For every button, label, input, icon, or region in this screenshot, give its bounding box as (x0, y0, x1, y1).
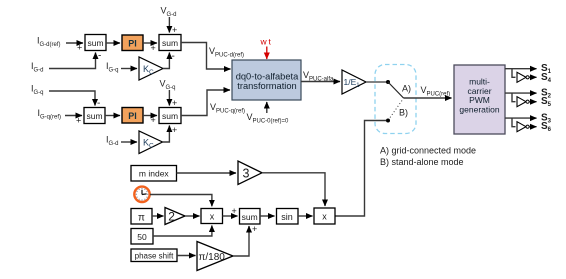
wire sum5 to sin (260, 215, 275, 217)
svg-text:+: + (252, 224, 257, 234)
svg-text:PI: PI (128, 39, 137, 49)
svg-text:+: + (151, 43, 156, 53)
wire branch to inverter G1 (512, 69, 516, 78)
svg-text:A) grid-connected mode: A) grid-connected mode (380, 146, 476, 156)
svg-text:IG-d(ref): IG-d(ref) (37, 36, 61, 49)
node I_G-q label (Kc1 input) (106, 61, 119, 74)
wire inverter G2 to S5 (529, 96, 551, 108)
gain 1/E1 triangle (342, 70, 366, 94)
svg-text:-: - (98, 51, 101, 62)
svg-text:IG-q: IG-q (106, 61, 119, 74)
switch contact B node (386, 108, 408, 123)
wire Kc2 to sum4 plus bottom (163, 125, 178, 142)
svg-text:VG-d: VG-d (161, 6, 177, 19)
svg-text:VPUC-alfa: VPUC-alfa (303, 70, 334, 83)
block multi-carrier PWM generation (454, 65, 505, 134)
node I_G-d label (Kc2 input) (106, 135, 119, 148)
wire branch to inverter G3 (512, 118, 516, 127)
block m index (131, 166, 177, 182)
svg-text:sin: sin (281, 212, 293, 222)
block sum1 (85, 35, 106, 51)
legend mode B text (380, 157, 464, 167)
wire PWM to S1 (505, 63, 552, 75)
block dq0-to-alfabeta transformation (232, 60, 301, 100)
wire gain 2 to product x1 (185, 215, 200, 217)
node I_G-q(ref) label (38, 108, 62, 121)
wire wt into transformation top (red) (266, 47, 268, 60)
wire I_G-q to sum3 minus top (49, 91, 100, 109)
wire sum2 to transformation block, node V_PUC-d(ref) (181, 43, 244, 70)
wire gain 3 to product x2 top (262, 173, 325, 206)
wire V_G-q to sum4 top (169, 90, 177, 108)
svg-text:π: π (138, 212, 145, 223)
svg-text:PI: PI (128, 111, 137, 121)
svg-text:-: - (172, 51, 175, 62)
wire sum4 to transformation block, node V_PUC-q(ref) (181, 90, 245, 116)
block pi constant (131, 209, 152, 225)
svg-text:dq0-to-alfabeta: dq0-to-alfabeta (236, 72, 299, 82)
wire branch to inverter G2 (512, 93, 516, 102)
node V_G-q label (160, 79, 176, 92)
svg-text:+: + (172, 125, 177, 135)
block sum5 (240, 209, 261, 225)
block product x2 (314, 208, 335, 224)
node I_G-d input label (31, 61, 44, 74)
wire I_G-d to Kc2 (121, 141, 137, 143)
node I_G-q input label row2 (31, 84, 44, 97)
wire clock to product x1 top (150, 195, 212, 207)
wire phase shift to gain pi/180 (177, 255, 196, 257)
node V_G-d label (161, 6, 177, 19)
wire sum3 to PI2 (105, 115, 120, 117)
wire Kc1 to sum2 minus bottom (163, 51, 175, 69)
svg-text:sum: sum (86, 111, 102, 121)
svg-text:generation: generation (459, 104, 499, 114)
block sum4 (159, 108, 181, 124)
svg-text:VG-q: VG-q (160, 79, 176, 92)
switch throw wire pivot to B (389, 101, 402, 120)
wire I_G-q to Kc1 (121, 68, 137, 70)
wire inverter G1 to S4 (529, 72, 551, 84)
svg-text:+: + (77, 43, 82, 53)
legend mode A text (380, 146, 476, 156)
svg-text:IG-q: IG-q (31, 84, 44, 97)
gain 2 triangle (165, 208, 185, 225)
switch contact A node (386, 80, 411, 94)
wire I_G-q(ref) to sum3 (65, 116, 82, 126)
wire transformation to 1/E1 gain, node V_PUC-alfa (301, 70, 340, 83)
node I_G-d(ref) input label (37, 36, 61, 49)
svg-text:+: + (172, 25, 177, 35)
svg-text:B) stand-alone mode: B) stand-alone mode (380, 157, 464, 167)
wire pi to gain 2 (152, 215, 164, 217)
svg-text:phase shift: phase shift (135, 251, 174, 260)
wire PI1 to sum2 (143, 43, 157, 53)
svg-text:VPUC-d(ref): VPUC-d(ref) (209, 46, 244, 59)
wire V_G-d to sum2 top (169, 17, 177, 35)
svg-text:VPUC-0(ref)=0: VPUC-0(ref)=0 (247, 112, 290, 125)
svg-text:3: 3 (243, 166, 250, 180)
svg-text:IG-d: IG-d (106, 135, 119, 148)
svg-text:sum: sum (162, 38, 178, 48)
inverter gate G2 (517, 97, 529, 107)
wire 1/E1 to switch contact A (366, 81, 388, 83)
gain pi/180 triangle (197, 242, 233, 271)
wire product x1 to sum5 (223, 206, 238, 216)
wire 50 to product x1 bottom (153, 226, 212, 237)
block constant 50 (131, 229, 153, 245)
wire switch output to PWM block, node V_PUC(ref) (404, 85, 452, 98)
wire sin to product x2 (298, 215, 313, 217)
svg-text:+: + (151, 115, 156, 125)
clock source (134, 187, 149, 202)
svg-text:wt: wt (260, 37, 273, 47)
svg-text:x: x (322, 212, 327, 222)
svg-text:2: 2 (168, 209, 175, 223)
wire sum1 to PI1 (106, 42, 120, 44)
block product x1 (201, 209, 223, 224)
wire PWM to S2 (505, 87, 552, 99)
svg-text:+: + (172, 98, 177, 108)
gain Kc2 triangle (139, 131, 163, 154)
svg-text:IG-d: IG-d (31, 61, 44, 74)
wire I_G-d to sum1 minus input (49, 51, 101, 69)
node V_PUC-0(ref)=0 label (247, 112, 290, 125)
wire pi/180 to sum5 bottom (233, 224, 257, 256)
wire PWM to S3 (505, 112, 552, 124)
svg-text:A): A) (402, 84, 411, 94)
inverter gate G3 (517, 122, 529, 132)
node wt (red) (260, 37, 273, 47)
block sum3 (84, 108, 105, 124)
wire PI2 to sum4 (143, 115, 157, 125)
svg-text:sum: sum (242, 212, 258, 222)
wire inverter G3 to S6 (529, 121, 551, 133)
wire m index to gain 3 (177, 172, 237, 174)
svg-text:VPUC-q(ref): VPUC-q(ref) (210, 102, 245, 115)
svg-text:50: 50 (137, 232, 147, 242)
block sin (277, 209, 299, 225)
block PI U2 (122, 108, 143, 124)
wire V_PUC-0 into transformation bottom (266, 102, 268, 113)
svg-text:VPUC(ref): VPUC(ref) (421, 85, 451, 98)
block sum2 (159, 35, 181, 51)
switch dashed enclosure (375, 65, 416, 134)
svg-text:+: + (232, 206, 237, 216)
switch arm wire A to pivot (388, 82, 404, 98)
svg-text:π/180: π/180 (199, 252, 226, 263)
block PI U1 (122, 35, 143, 51)
gain Kc1 triangle (139, 57, 163, 80)
inverter gate G1 (517, 72, 529, 82)
svg-text:m index: m index (139, 168, 170, 178)
svg-text:sum: sum (162, 111, 178, 121)
gain 3 triangle (238, 161, 262, 185)
wire oscillator output to switch contact B (335, 121, 386, 217)
wire I_G-d(ref) to sum1 (66, 43, 83, 53)
block phase shift (131, 249, 177, 262)
svg-text:+: + (76, 116, 81, 126)
svg-text:sum: sum (87, 38, 103, 48)
svg-text:x: x (210, 211, 215, 221)
svg-text:IG-q(ref): IG-q(ref) (38, 108, 62, 121)
svg-text:transformation: transformation (237, 81, 296, 91)
svg-text:B): B) (399, 108, 408, 118)
